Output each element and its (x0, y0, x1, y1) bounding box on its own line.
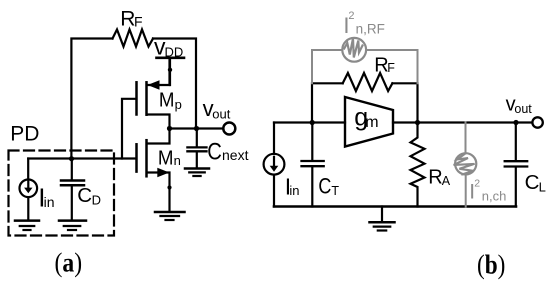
svg-text:R: R (428, 166, 442, 188)
svg-text:2: 2 (348, 10, 354, 22)
svg-text:M: M (159, 89, 175, 112)
svg-text:next: next (222, 147, 249, 163)
svg-text:L: L (539, 179, 546, 194)
svg-text:A: A (442, 174, 451, 188)
svg-text:(a): (a) (55, 248, 83, 278)
svg-text:C: C (318, 173, 331, 198)
svg-text:F: F (387, 61, 395, 75)
svg-text:F: F (134, 14, 143, 30)
svg-text:C: C (207, 138, 222, 165)
svg-text:DD: DD (165, 44, 184, 59)
svg-text:C: C (77, 184, 92, 207)
svg-text:PD: PD (10, 122, 39, 145)
svg-text:p: p (175, 97, 182, 112)
svg-text:M: M (158, 147, 174, 170)
svg-text:out: out (514, 102, 532, 116)
svg-text:m: m (365, 114, 378, 131)
svg-text:T: T (331, 184, 339, 198)
svg-text:in: in (44, 194, 55, 210)
svg-text:n,RF: n,RF (356, 21, 385, 36)
svg-text:C: C (525, 171, 540, 194)
svg-text:out: out (212, 107, 230, 122)
svg-text:n,ch: n,ch (482, 188, 507, 203)
svg-text:in: in (289, 183, 299, 198)
svg-text:n: n (174, 153, 181, 168)
svg-text:2: 2 (474, 178, 480, 190)
svg-text:(b): (b) (477, 249, 505, 279)
svg-text:D: D (92, 193, 101, 208)
